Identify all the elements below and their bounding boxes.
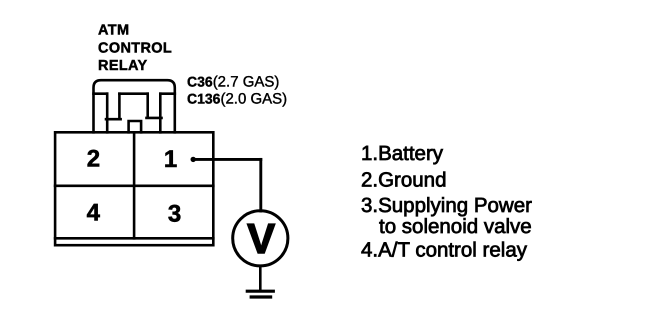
svg-text:C36(2.7 GAS): C36(2.7 GAS)	[187, 74, 279, 91]
svg-text:3.Supplying Power: 3.Supplying Power	[361, 194, 532, 217]
label ATM CONTROL RELAY	[98, 23, 172, 75]
svg-text:CONTROL: CONTROL	[98, 40, 172, 56]
connector box horizontal divider	[55, 185, 213, 188]
svg-text:V: V	[247, 215, 275, 262]
connector box outline	[55, 132, 213, 245]
legend pin list	[361, 142, 532, 261]
svg-text:4.A/T control relay: 4.A/T control relay	[361, 239, 528, 262]
svg-text:4: 4	[87, 200, 101, 227]
wire from pin 1 to voltmeter (vertical)	[259, 159, 262, 211]
svg-text:to solenoid valve: to solenoid valve	[379, 215, 532, 238]
relay K1 center tab	[129, 121, 142, 132]
junction dot at pin 1	[191, 157, 196, 162]
relay K1 left slot	[106, 94, 121, 133]
wire from voltmeter to ground	[259, 267, 262, 290]
svg-text:3: 3	[168, 200, 181, 227]
wire from pin 1 to voltmeter (horizontal)	[193, 158, 261, 161]
relay K1 body outline	[94, 80, 175, 132]
ground	[247, 291, 273, 297]
connector box bottom flange line	[55, 237, 213, 240]
svg-text:C136(2.0 GAS): C136(2.0 GAS)	[187, 90, 287, 107]
svg-text:2: 2	[87, 145, 100, 172]
svg-text:RELAY: RELAY	[98, 58, 148, 74]
connector box vertical divider	[133, 132, 136, 238]
relay K1 right slot	[147, 94, 162, 133]
svg-text:1: 1	[164, 146, 177, 173]
voltmeter V1 circle	[233, 211, 288, 266]
svg-text:1.Battery: 1.Battery	[361, 142, 444, 165]
svg-text:ATM: ATM	[98, 23, 129, 39]
svg-text:2.Ground: 2.Ground	[361, 169, 446, 192]
relay K1 base bottom edge segments	[94, 92, 175, 95]
